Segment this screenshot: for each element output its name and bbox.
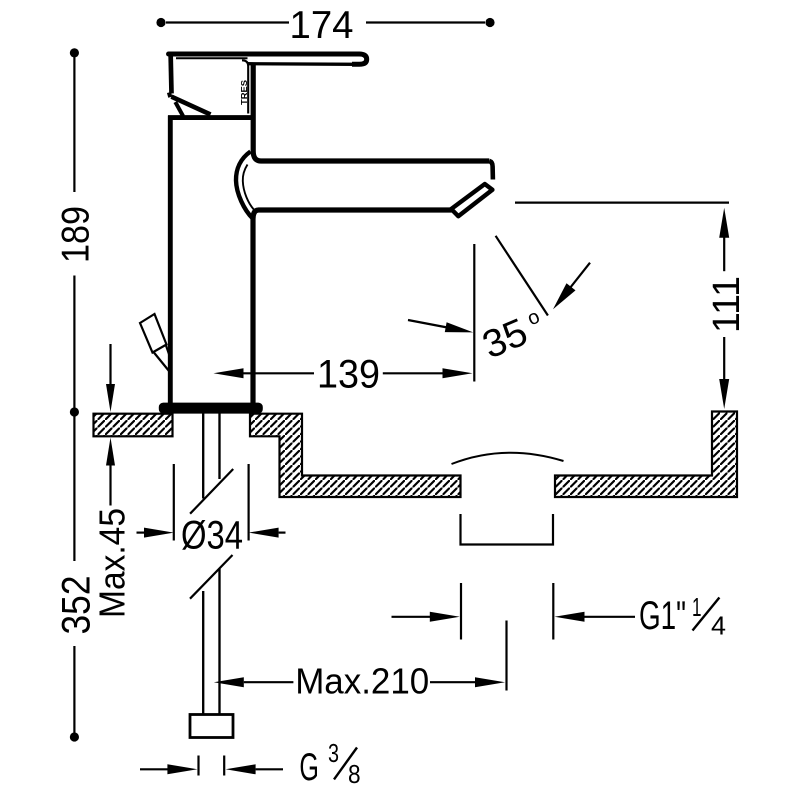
dimension G1 1/4 extension ticks — [461, 583, 553, 640]
svg-text:TRES: TRES — [239, 80, 249, 105]
dimension G3/8 extension ticks — [199, 756, 225, 776]
cartridge housing top line — [168, 115, 256, 120]
svg-text:139: 139 — [317, 353, 380, 397]
supply pipe lower segment — [203, 569, 219, 715]
drain tailpiece bracket — [461, 514, 554, 545]
spout height reference line — [515, 202, 729, 204]
handle body left notch — [169, 93, 170, 98]
dimension 111 lower arrow — [723, 337, 725, 380]
dimension O34 extension ticks — [174, 464, 249, 541]
dimension G3/8 right arrow — [256, 768, 283, 770]
dimension Max.210 extension tick — [505, 621, 507, 691]
dimension G3/8 left arrow — [140, 768, 168, 770]
handle lever bar — [169, 52, 359, 57]
pipe break line 2 — [190, 555, 233, 599]
svg-text:Max.45: Max.45 — [92, 508, 133, 618]
svg-text:8: 8 — [348, 759, 361, 789]
dimension 174 end dots — [156, 18, 165, 27]
aerator band at spout tip — [451, 184, 492, 216]
countertop left deck section (hatched) — [94, 414, 173, 437]
svg-text:1: 1 — [692, 592, 702, 622]
dimension 111 upper arrow — [719, 208, 729, 238]
countertop right basin wall section (hatched) — [555, 412, 737, 498]
leader arrow to vertical line — [408, 320, 450, 328]
spout tip right edge — [489, 161, 493, 180]
svg-text:174: 174 — [290, 4, 354, 47]
svg-text:189: 189 — [54, 206, 97, 263]
dimension 189 end dots — [70, 48, 79, 57]
35 deg angled ray — [496, 236, 548, 316]
dimension O34 right arrow — [279, 531, 286, 533]
svg-text:3: 3 — [328, 738, 339, 768]
dimension Max.45 upper arrow — [109, 344, 111, 386]
svg-text:Max.210: Max.210 — [295, 661, 429, 702]
dimension 352 end dot — [70, 732, 79, 741]
drain boss arc — [452, 453, 564, 464]
faucet base plate — [159, 403, 263, 414]
dimension 189 line — [73, 57, 75, 408]
dimension 139 line left — [244, 372, 315, 374]
dimension G1 1/4 left arrow — [392, 616, 431, 618]
supply pipe upper segment — [203, 414, 219, 499]
handle stem — [175, 102, 183, 116]
dimension Max.210 right arrow — [430, 681, 476, 683]
dimension O34 left arrow — [137, 531, 146, 533]
spout joint outer bulge curve — [236, 152, 253, 219]
svg-text:Ø34: Ø34 — [181, 514, 243, 558]
svg-text:4: 4 — [711, 611, 726, 641]
svg-text:111: 111 — [706, 276, 748, 333]
handle body bottom diagonal — [171, 97, 210, 115]
countertop middle basin step section (hatched) — [250, 414, 461, 497]
spout bottom edge + column right edge lower — [253, 210, 452, 403]
dimension Max.45 lower arrow — [109, 463, 111, 506]
dimension Max.210 left arrow — [244, 681, 294, 683]
knob stem lines — [154, 346, 171, 372]
handle body right thin edge — [242, 60, 248, 113]
pipe break line 1 — [190, 469, 233, 514]
dimension 139 line right — [383, 372, 443, 374]
lever bottom edge — [248, 62, 357, 66]
dimension 139 right arrowhead — [443, 368, 473, 378]
faucet column right edge upper + spout top edge — [253, 64, 489, 161]
handle body top thin line — [176, 57, 248, 59]
faucet body column left edge — [168, 116, 173, 404]
dimension 174 line — [166, 21, 485, 23]
drain pull-rod knob — [140, 314, 167, 353]
dimension 139 left arrowhead — [214, 368, 244, 378]
lever right end cap — [352, 54, 367, 64]
svg-text:G: G — [299, 746, 319, 789]
leader arrow to angled ray — [566, 263, 590, 293]
dimension 352 line — [73, 416, 75, 733]
spout joint inner highlight curve — [243, 165, 254, 210]
svg-text:G1": G1" — [639, 594, 686, 638]
G3/8 connector block — [190, 715, 233, 738]
dimension G1 1/4 right arrow — [584, 616, 635, 618]
handle body left edge — [168, 53, 174, 94]
35 deg vertical reference line — [473, 244, 475, 382]
